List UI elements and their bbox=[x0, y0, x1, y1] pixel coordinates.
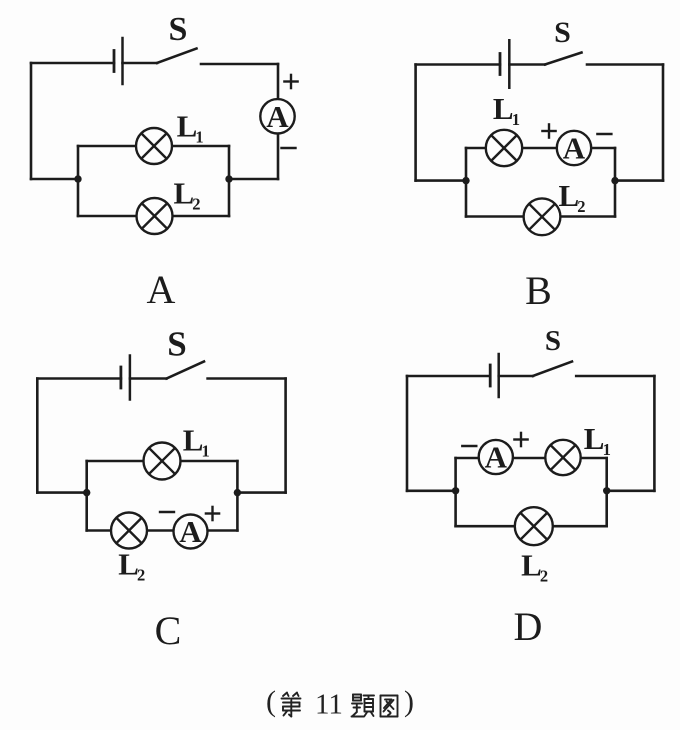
svg-text:A: A bbox=[266, 99, 289, 134]
svg-text:L: L bbox=[183, 423, 204, 458]
svg-text:1: 1 bbox=[603, 440, 611, 459]
svg-text:A: A bbox=[485, 440, 508, 475]
svg-text:L: L bbox=[559, 178, 580, 213]
svg-text:S: S bbox=[169, 11, 188, 48]
svg-text:2: 2 bbox=[137, 566, 145, 585]
svg-text:L: L bbox=[493, 91, 514, 126]
svg-text:1: 1 bbox=[195, 127, 203, 146]
svg-text:L: L bbox=[174, 176, 195, 211]
svg-text:(: ( bbox=[266, 685, 276, 718]
svg-text:C: C bbox=[155, 608, 182, 653]
svg-text:L: L bbox=[177, 108, 198, 143]
svg-text:2: 2 bbox=[577, 197, 585, 216]
svg-text:2: 2 bbox=[540, 567, 548, 586]
svg-text:B: B bbox=[525, 268, 552, 313]
svg-text:S: S bbox=[167, 325, 186, 364]
svg-text:A: A bbox=[563, 131, 586, 166]
svg-text:): ) bbox=[404, 685, 414, 718]
svg-text:A: A bbox=[179, 514, 202, 549]
svg-text:1: 1 bbox=[202, 442, 210, 461]
svg-text:2: 2 bbox=[192, 195, 200, 214]
svg-text:11: 11 bbox=[315, 689, 343, 721]
svg-text:L: L bbox=[118, 547, 139, 582]
svg-text:L: L bbox=[521, 548, 542, 583]
svg-text:D: D bbox=[514, 604, 543, 649]
svg-text:1: 1 bbox=[512, 110, 520, 129]
svg-text:L: L bbox=[584, 421, 605, 456]
svg-text:A: A bbox=[147, 267, 176, 312]
svg-text:S: S bbox=[545, 325, 561, 357]
svg-text:S: S bbox=[554, 16, 571, 49]
